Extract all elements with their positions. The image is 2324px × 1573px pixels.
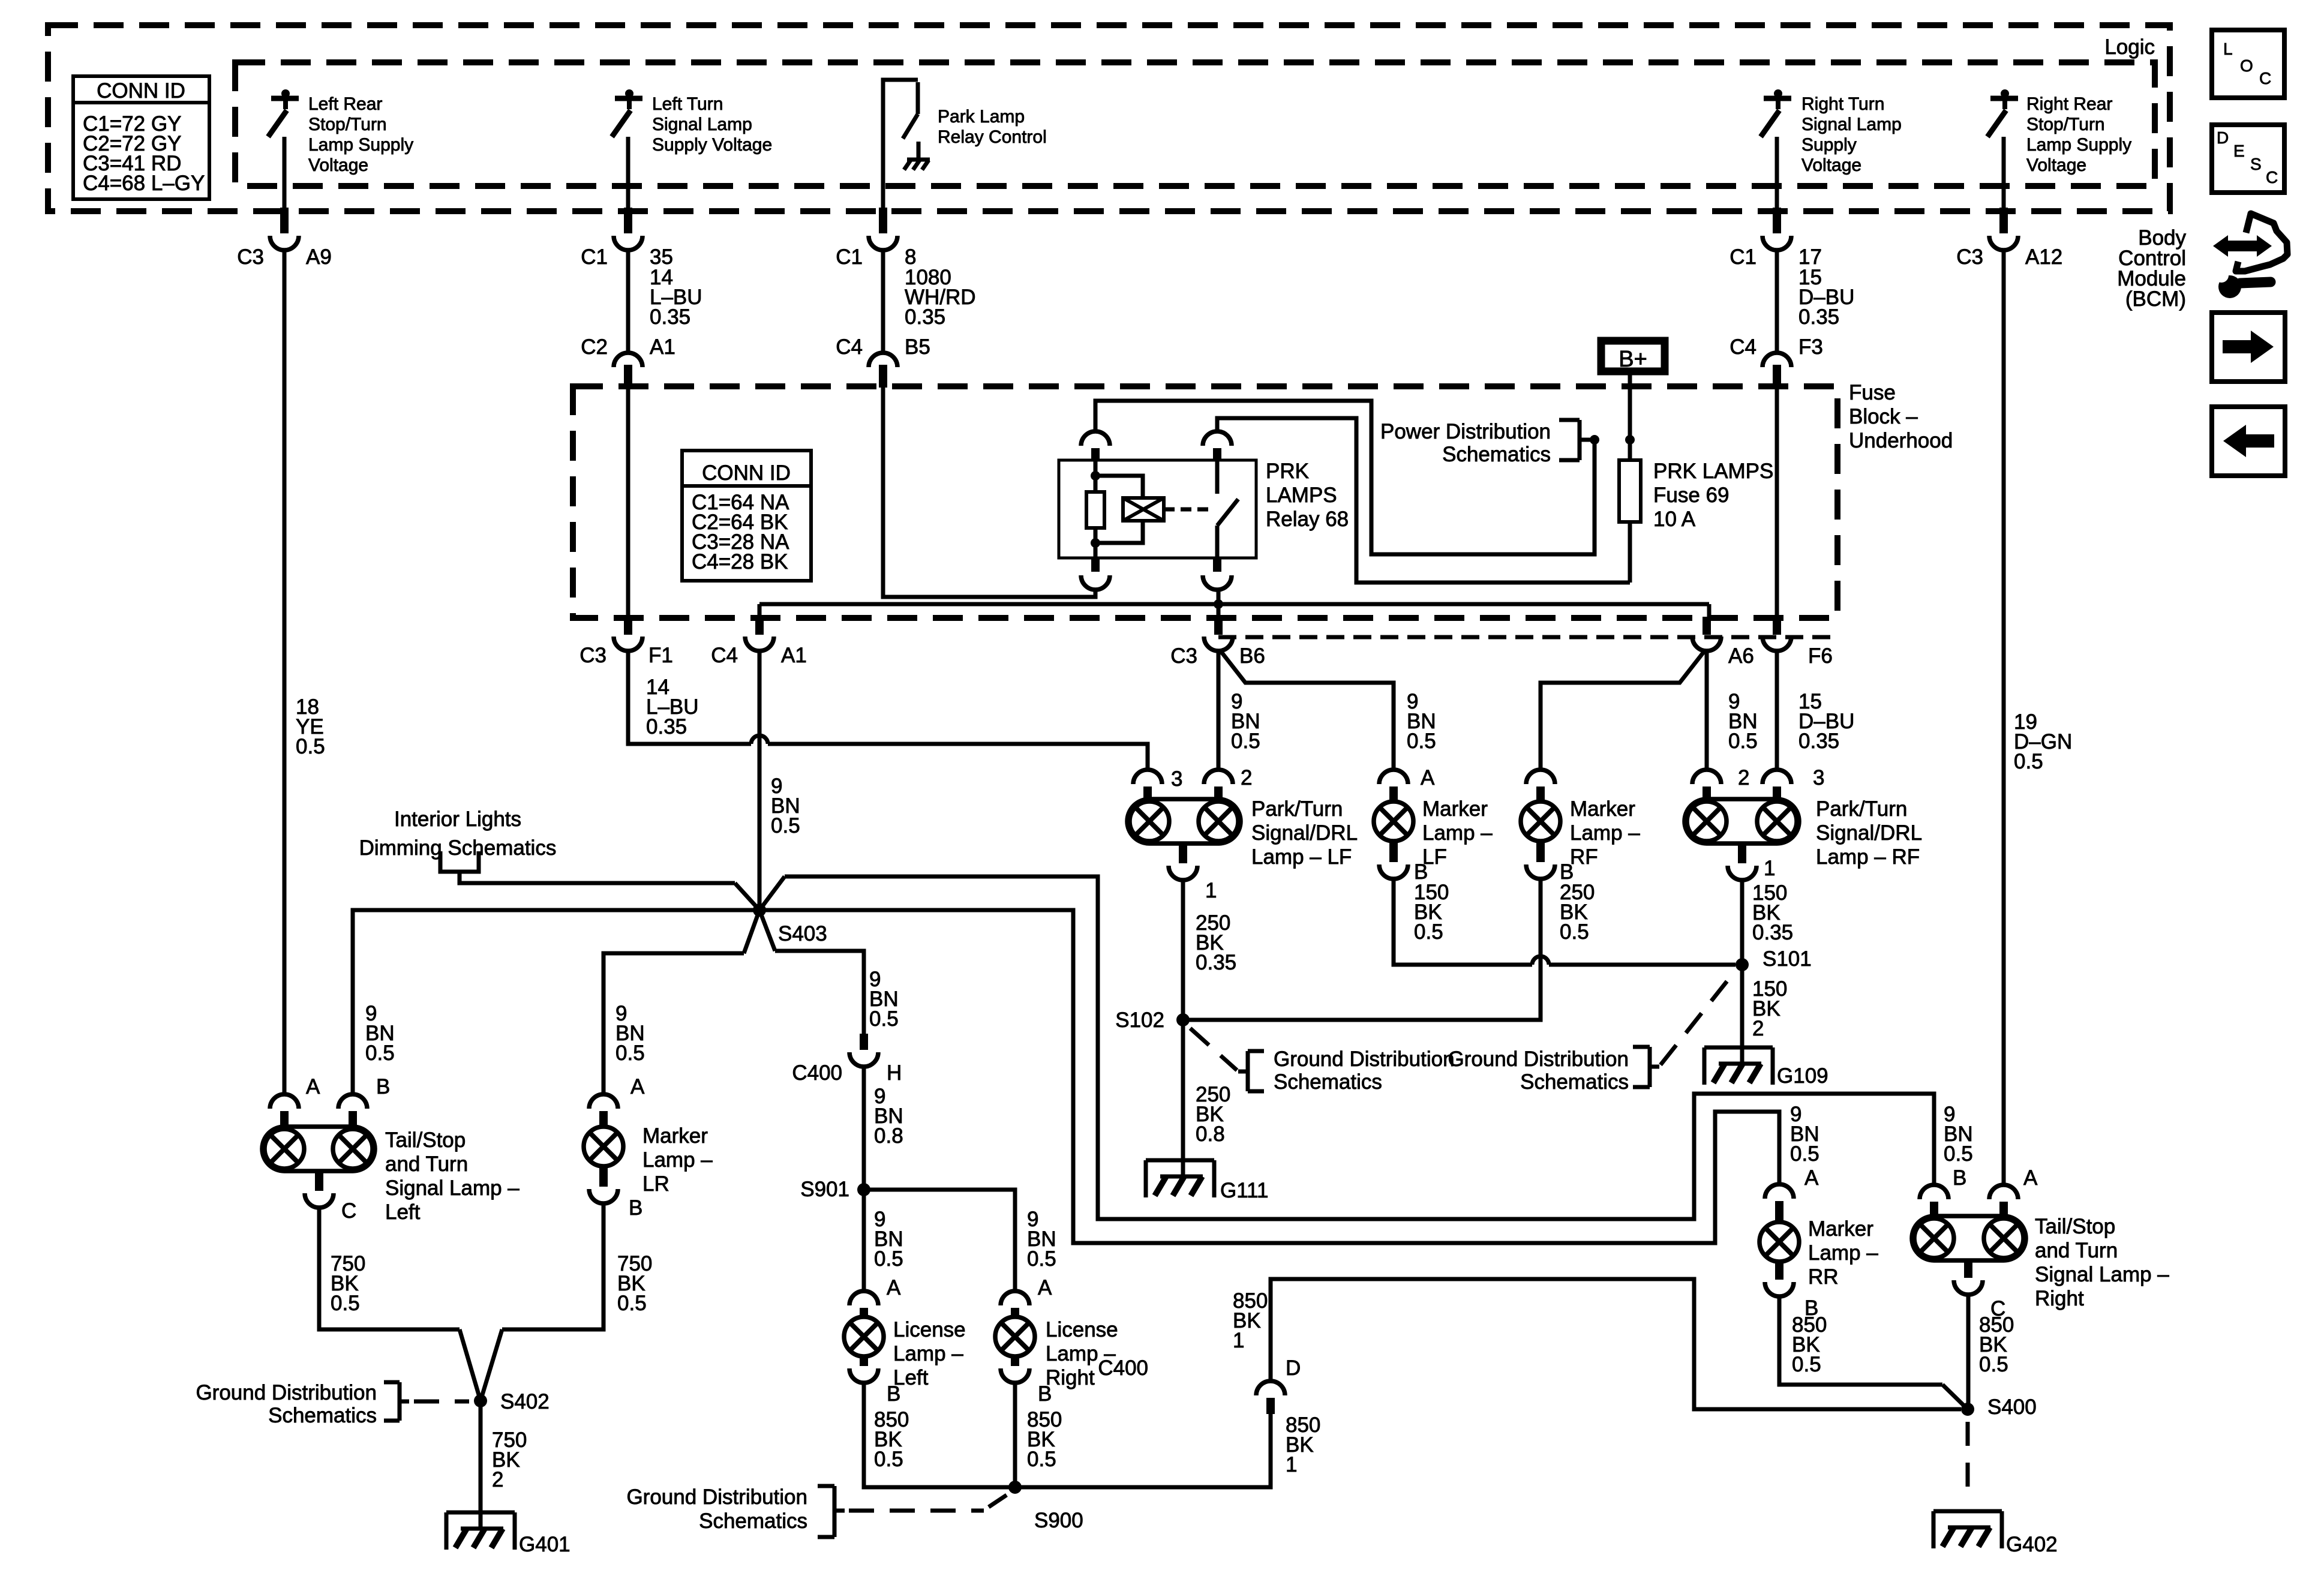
svg-text:PRK: PRK — [1266, 460, 1309, 483]
svg-text:0.5: 0.5 — [1027, 1448, 1056, 1471]
svg-text:Right Rear: Right Rear — [2026, 94, 2112, 114]
svg-text:A: A — [306, 1075, 320, 1098]
svg-text:0.5: 0.5 — [617, 1292, 647, 1315]
svg-text:Signal Lamp: Signal Lamp — [652, 115, 752, 134]
svg-text:Fuse 69: Fuse 69 — [1653, 484, 1729, 507]
svg-text:A6: A6 — [1728, 644, 1754, 668]
svg-text:A: A — [1421, 766, 1435, 789]
svg-text:0.5: 0.5 — [874, 1247, 903, 1271]
svg-text:C3: C3 — [580, 644, 606, 667]
svg-text:Stop/Turn: Stop/Turn — [308, 115, 387, 134]
svg-text:0.5: 0.5 — [1728, 730, 1758, 753]
svg-text:D: D — [1286, 1356, 1301, 1380]
svg-text:Voltage: Voltage — [1801, 155, 1861, 175]
svg-text:and Turn: and Turn — [2035, 1239, 2118, 1262]
svg-text:Interior Lights: Interior Lights — [394, 807, 521, 831]
svg-text:3: 3 — [1813, 766, 1824, 789]
svg-text:Ground Distribution: Ground Distribution — [196, 1381, 377, 1404]
svg-text:C3: C3 — [237, 245, 264, 269]
svg-text:RR: RR — [1808, 1265, 1839, 1289]
svg-text:A1: A1 — [781, 644, 807, 667]
svg-text:0.5: 0.5 — [1792, 1353, 1821, 1376]
svg-text:A: A — [887, 1276, 901, 1299]
svg-text:Marker: Marker — [1808, 1217, 1873, 1241]
svg-text:2: 2 — [1738, 766, 1749, 789]
svg-text:F6: F6 — [1808, 644, 1833, 668]
svg-text:Relay Control: Relay Control — [938, 127, 1047, 147]
svg-text:D: D — [2217, 128, 2229, 147]
svg-text:Lamp Supply: Lamp Supply — [308, 135, 413, 155]
svg-text:G402: G402 — [2006, 1533, 2058, 1556]
svg-text:B6: B6 — [1239, 644, 1265, 668]
svg-text:License: License — [1046, 1318, 1118, 1341]
svg-text:Tail/Stop: Tail/Stop — [385, 1128, 466, 1152]
svg-text:Signal Lamp –: Signal Lamp – — [2035, 1263, 2169, 1286]
svg-text:Right Turn: Right Turn — [1801, 94, 1884, 114]
svg-text:PRK LAMPS: PRK LAMPS — [1653, 460, 1773, 483]
svg-text:RF: RF — [1570, 845, 1598, 869]
svg-text:CONN ID: CONN ID — [702, 461, 791, 485]
svg-text:Left Turn: Left Turn — [652, 94, 723, 114]
svg-text:Left: Left — [385, 1200, 421, 1224]
svg-text:C: C — [341, 1199, 356, 1223]
svg-text:C3: C3 — [1170, 644, 1197, 668]
svg-text:0.5: 0.5 — [331, 1292, 360, 1315]
svg-text:Signal/DRL: Signal/DRL — [1251, 821, 1358, 845]
svg-text:Park Lamp: Park Lamp — [938, 107, 1025, 127]
svg-text:S403: S403 — [778, 922, 827, 945]
svg-text:Lamp –: Lamp – — [1570, 821, 1640, 845]
svg-text:0.5: 0.5 — [1414, 920, 1443, 944]
svg-text:0.5: 0.5 — [771, 814, 800, 837]
svg-text:Fuse: Fuse — [1849, 381, 1896, 404]
svg-text:Lamp – RF: Lamp – RF — [1816, 845, 1920, 869]
svg-text:S901: S901 — [800, 1178, 849, 1201]
svg-text:B5: B5 — [905, 335, 930, 359]
svg-text:0.5: 0.5 — [1790, 1142, 1819, 1166]
svg-text:0.5: 0.5 — [615, 1041, 645, 1065]
svg-text:Marker: Marker — [1570, 797, 1635, 821]
svg-text:2: 2 — [1752, 1017, 1764, 1040]
svg-text:A: A — [2023, 1166, 2038, 1190]
svg-text:Logic: Logic — [2104, 35, 2155, 59]
svg-text:G109: G109 — [1777, 1064, 1828, 1088]
svg-text:Relay 68: Relay 68 — [1266, 508, 1349, 531]
svg-text:(BCM): (BCM) — [2125, 287, 2186, 311]
svg-text:Schematics: Schematics — [699, 1509, 807, 1533]
svg-text:0.35: 0.35 — [1752, 921, 1793, 944]
svg-text:LAMPS: LAMPS — [1266, 484, 1337, 507]
svg-text:0.5: 0.5 — [296, 735, 325, 758]
svg-text:A: A — [1038, 1276, 1052, 1299]
svg-text:CONN ID: CONN ID — [97, 79, 185, 103]
svg-text:Supply Voltage: Supply Voltage — [652, 135, 772, 155]
svg-text:Voltage: Voltage — [308, 155, 368, 175]
svg-text:Marker: Marker — [642, 1124, 708, 1148]
svg-text:Lamp –: Lamp – — [1808, 1241, 1878, 1265]
svg-text:0.35: 0.35 — [1196, 951, 1236, 974]
svg-text:1: 1 — [1205, 879, 1217, 902]
svg-text:0.5: 0.5 — [1231, 730, 1260, 753]
svg-text:Power Distribution: Power Distribution — [1380, 420, 1551, 443]
svg-text:2: 2 — [1241, 766, 1252, 789]
svg-text:Tail/Stop: Tail/Stop — [2035, 1215, 2115, 1238]
svg-text:0.8: 0.8 — [874, 1124, 903, 1148]
svg-text:B+: B+ — [1619, 347, 1647, 372]
svg-text:Underhood: Underhood — [1849, 429, 1953, 452]
svg-text:Park/Turn: Park/Turn — [1816, 797, 1907, 821]
svg-text:Stop/Turn: Stop/Turn — [2026, 115, 2105, 134]
svg-text:C3: C3 — [1956, 245, 1983, 269]
svg-text:Schematics: Schematics — [1274, 1070, 1382, 1094]
svg-text:S400: S400 — [1987, 1395, 2037, 1419]
svg-text:C4: C4 — [836, 335, 863, 359]
svg-text:E: E — [2233, 142, 2245, 160]
svg-text:0.8: 0.8 — [1196, 1122, 1225, 1146]
svg-text:C1: C1 — [836, 245, 863, 269]
svg-text:Ground Distribution: Ground Distribution — [626, 1485, 807, 1509]
svg-text:0.5: 0.5 — [874, 1448, 903, 1471]
svg-text:A1: A1 — [650, 335, 675, 359]
svg-text:C400: C400 — [1098, 1356, 1148, 1380]
svg-text:Signal Lamp: Signal Lamp — [1801, 115, 1902, 134]
svg-text:B: B — [629, 1196, 642, 1220]
svg-text:C: C — [2259, 69, 2271, 88]
svg-text:Lamp – LF: Lamp – LF — [1251, 845, 1352, 869]
svg-text:0.5: 0.5 — [1944, 1142, 1973, 1166]
svg-text:C1: C1 — [1730, 245, 1756, 269]
svg-text:3: 3 — [1171, 767, 1182, 791]
svg-text:0.5: 0.5 — [1027, 1247, 1056, 1271]
svg-text:S: S — [2250, 155, 2262, 173]
svg-text:0.5: 0.5 — [1560, 920, 1589, 944]
svg-text:B: B — [1038, 1382, 1052, 1406]
svg-text:Schematics: Schematics — [1442, 443, 1551, 466]
svg-text:Block –: Block – — [1849, 405, 1918, 428]
svg-text:O: O — [2240, 56, 2253, 75]
svg-text:Signal Lamp –: Signal Lamp – — [385, 1176, 520, 1200]
svg-text:F3: F3 — [1798, 335, 1823, 359]
svg-text:Ground Distribution: Ground Distribution — [1448, 1047, 1629, 1071]
svg-text:License: License — [893, 1318, 966, 1341]
svg-text:A9: A9 — [306, 245, 332, 269]
svg-text:A: A — [1804, 1166, 1819, 1190]
svg-text:Right: Right — [2035, 1287, 2084, 1310]
svg-text:and Turn: and Turn — [385, 1152, 468, 1176]
svg-text:B: B — [1953, 1166, 1966, 1190]
svg-text:C4=28 BK: C4=28 BK — [692, 550, 788, 574]
svg-text:Dimming Schematics: Dimming Schematics — [359, 836, 557, 860]
svg-text:B: B — [887, 1382, 900, 1406]
svg-text:1: 1 — [1233, 1329, 1244, 1352]
svg-text:G111: G111 — [1220, 1179, 1268, 1202]
svg-text:C2: C2 — [581, 335, 608, 359]
svg-text:Lamp –: Lamp – — [642, 1148, 713, 1172]
svg-text:S102: S102 — [1115, 1008, 1164, 1032]
svg-text:Left Rear: Left Rear — [308, 94, 382, 114]
svg-text:C: C — [2266, 168, 2278, 187]
svg-text:S900: S900 — [1034, 1509, 1083, 1532]
svg-text:0.5: 0.5 — [869, 1007, 899, 1031]
svg-text:G401: G401 — [519, 1533, 571, 1556]
svg-text:Park/Turn: Park/Turn — [1251, 797, 1343, 821]
svg-text:Lamp Supply: Lamp Supply — [2026, 135, 2131, 155]
svg-text:A: A — [630, 1075, 645, 1098]
svg-text:0.35: 0.35 — [646, 715, 687, 739]
svg-text:S101: S101 — [1762, 947, 1812, 971]
svg-text:H: H — [887, 1061, 902, 1085]
svg-text:Right: Right — [1046, 1366, 1095, 1389]
svg-text:Supply: Supply — [1801, 135, 1857, 155]
svg-text:S402: S402 — [500, 1390, 550, 1413]
svg-text:0.35: 0.35 — [1798, 730, 1839, 753]
svg-text:L: L — [2223, 40, 2233, 58]
svg-text:Ground Distribution: Ground Distribution — [1274, 1047, 1455, 1071]
svg-text:0.5: 0.5 — [2014, 750, 2043, 773]
svg-text:0.35: 0.35 — [1798, 305, 1839, 329]
svg-text:1: 1 — [1764, 857, 1775, 880]
svg-text:0.35: 0.35 — [650, 305, 690, 329]
svg-text:10 A: 10 A — [1653, 508, 1696, 531]
svg-text:2: 2 — [492, 1468, 503, 1491]
svg-text:A12: A12 — [2025, 245, 2062, 269]
svg-text:0.5: 0.5 — [1979, 1353, 2008, 1376]
svg-text:C4: C4 — [711, 644, 738, 667]
svg-text:Schematics: Schematics — [1520, 1070, 1629, 1094]
svg-text:C4=68 L–GY: C4=68 L–GY — [83, 172, 205, 195]
svg-text:0.5: 0.5 — [1407, 730, 1436, 753]
svg-text:0.35: 0.35 — [905, 305, 945, 329]
svg-text:0.5: 0.5 — [365, 1041, 395, 1065]
svg-text:Voltage: Voltage — [2026, 155, 2086, 175]
svg-text:B: B — [376, 1075, 390, 1098]
svg-text:Lamp –: Lamp – — [893, 1342, 963, 1365]
svg-text:F1: F1 — [648, 644, 673, 667]
svg-text:C400: C400 — [792, 1061, 842, 1085]
svg-text:LR: LR — [642, 1172, 669, 1196]
svg-text:Lamp –: Lamp – — [1422, 821, 1493, 845]
svg-text:C1: C1 — [581, 245, 608, 269]
svg-text:1: 1 — [1286, 1453, 1297, 1476]
svg-text:Signal/DRL: Signal/DRL — [1816, 821, 1922, 845]
svg-text:Schematics: Schematics — [268, 1404, 377, 1427]
svg-text:C4: C4 — [1730, 335, 1756, 359]
svg-text:Marker: Marker — [1422, 797, 1488, 821]
